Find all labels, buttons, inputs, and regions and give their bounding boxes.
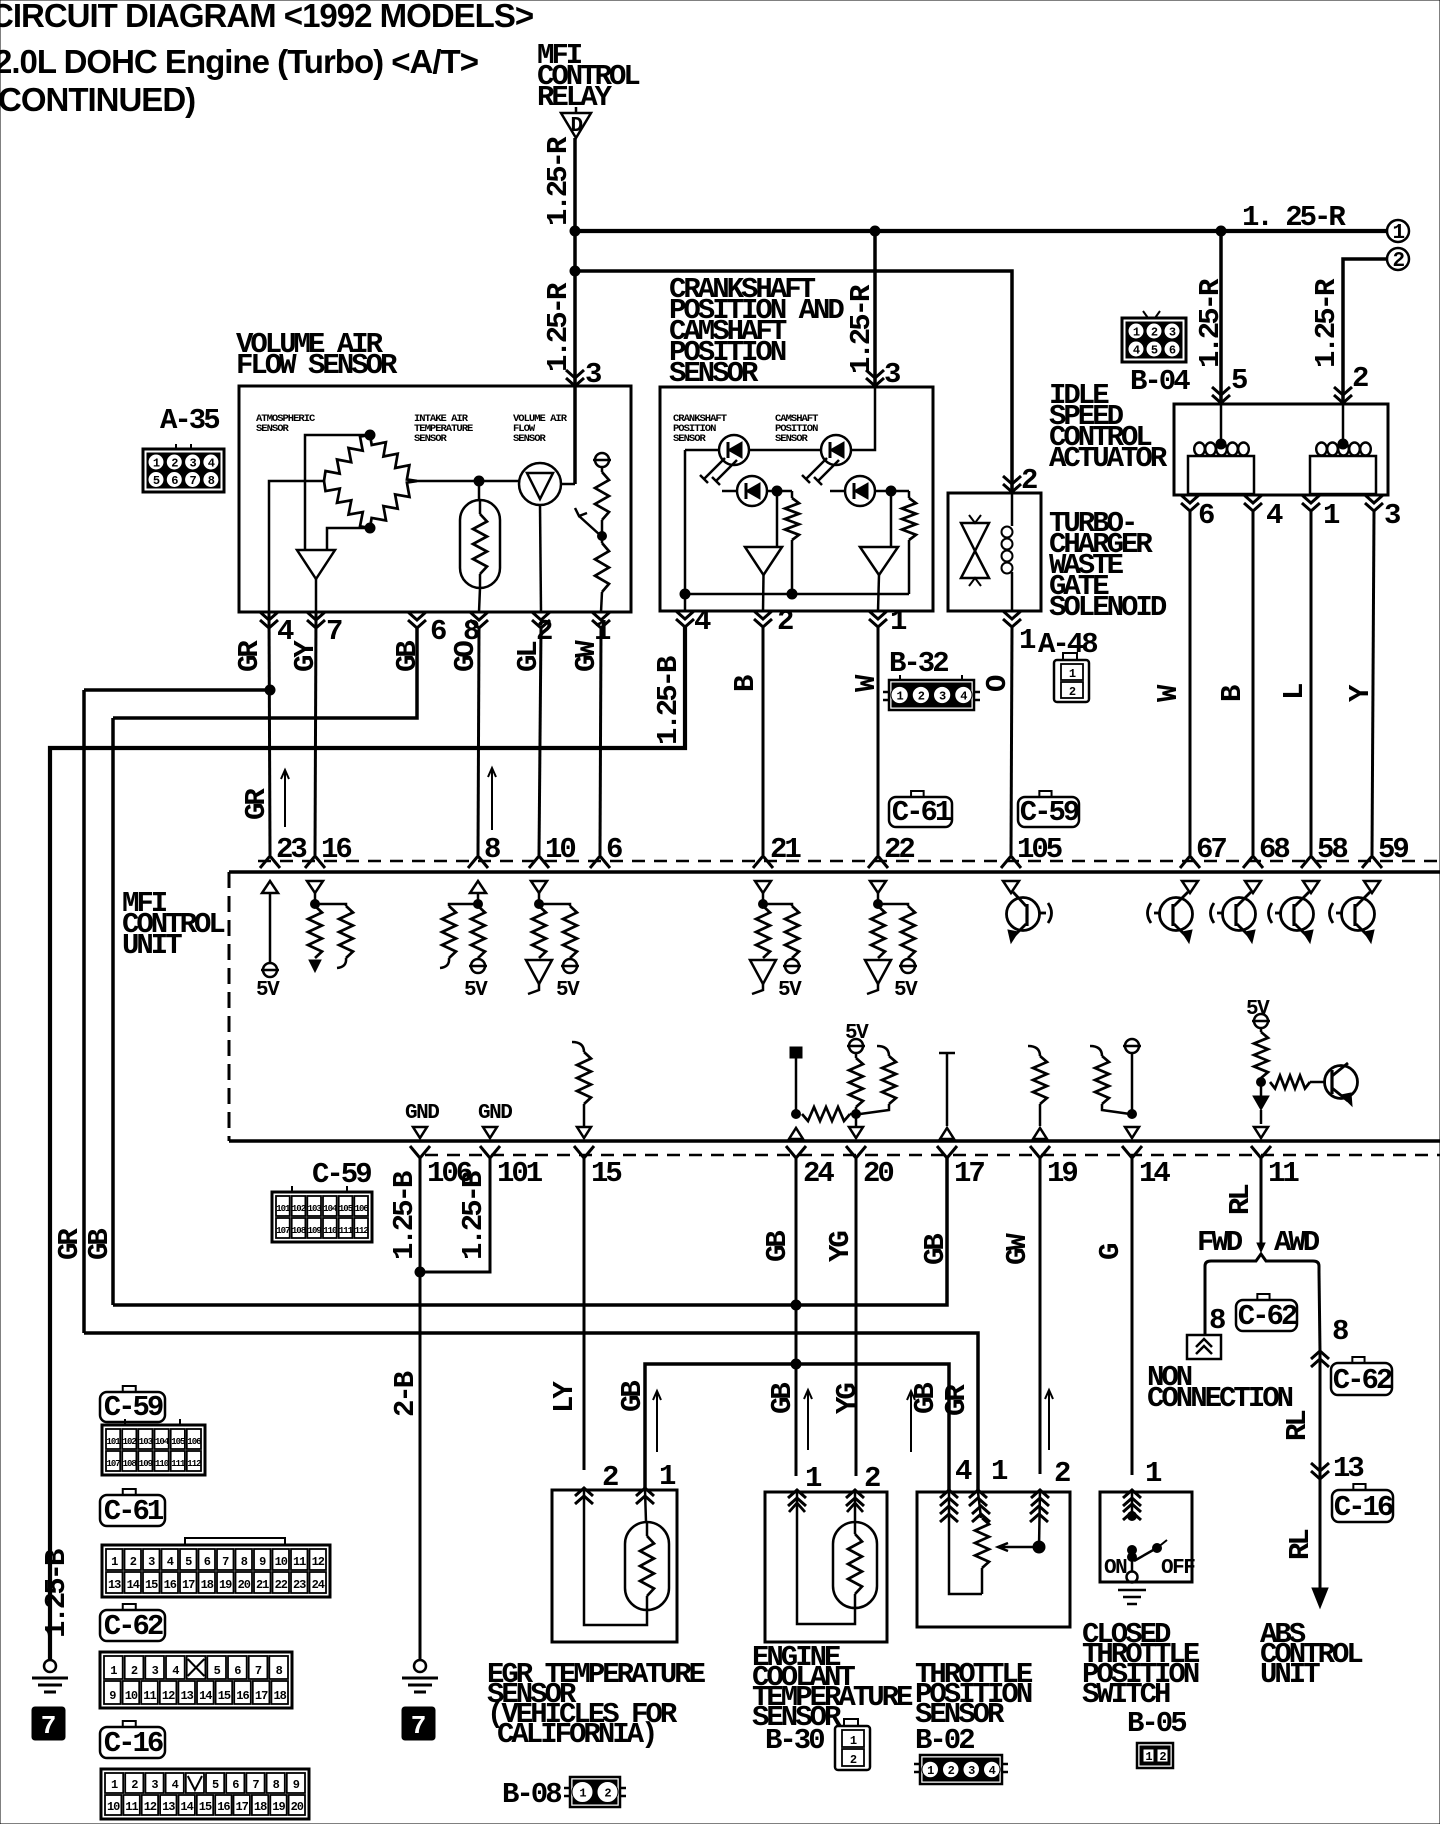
svg-text:7: 7 [252, 1778, 259, 1792]
svg-text:RL: RL [1281, 1411, 1314, 1441]
svg-text:4: 4 [208, 457, 215, 471]
svg-text:9: 9 [259, 1555, 266, 1569]
svg-text:GB: GB [766, 1383, 799, 1414]
MFI pin 68 arrow [1243, 856, 1263, 868]
svg-text:1: 1 [111, 1555, 118, 1569]
EGR pin 1 arrow [636, 1488, 654, 1504]
svg-text:15: 15 [199, 1800, 212, 1814]
svg-text:5: 5 [1231, 364, 1247, 397]
wastegate valve symbol [961, 515, 989, 586]
MFI pin 23 arrow [260, 856, 280, 868]
wire flow meter to pin 2 [540, 505, 541, 612]
svg-text:OFF: OFF [1161, 1557, 1195, 1580]
MFI control relay symbol D [561, 107, 591, 138]
junction bus resistor [787, 589, 797, 599]
junction GR branch [265, 685, 275, 695]
EGR sensor label [487, 1658, 706, 1751]
svg-text:17: 17 [255, 1689, 268, 1703]
svg-text:1: 1 [897, 690, 904, 704]
wire photo crank right [768, 490, 792, 493]
svg-text:110: 110 [155, 1459, 169, 1469]
junction 106-101 merge [415, 1267, 425, 1277]
svg-text:1.25-R: 1.25-R [845, 284, 878, 374]
svg-text:5V: 5V [894, 979, 918, 1002]
svg-text:SENSOR: SENSOR [775, 433, 809, 445]
svg-text:22: 22 [275, 1578, 288, 1592]
svg-text:GND: GND [405, 1102, 439, 1125]
EGR temperature sensor box [552, 1490, 677, 1642]
connector A-35 [143, 444, 224, 492]
MFI pin 22 arrow [868, 856, 888, 868]
svg-text:16: 16 [217, 1800, 230, 1814]
svg-text:16: 16 [236, 1689, 249, 1703]
bridge bottom junction [365, 523, 375, 533]
engine coolant temperature sensor box [765, 1492, 887, 1642]
svg-text:5: 5 [212, 1778, 219, 1792]
svg-text:YG: YG [831, 1384, 864, 1414]
wire G pin 14 to throttle switch [1131, 1158, 1134, 1475]
svg-text:106: 106 [187, 1437, 201, 1447]
turbocharger wastegate solenoid box [948, 493, 1041, 611]
svg-text:1.25-B: 1.25-B [652, 656, 685, 745]
svg-text:24: 24 [312, 1578, 325, 1592]
svg-text:17: 17 [182, 1578, 195, 1592]
MFI pin 10 arrow [529, 856, 549, 868]
light rays crankshaft [700, 458, 737, 485]
bridge resistor bottom-right [370, 481, 417, 528]
svg-text:C-61: C-61 [104, 1495, 164, 1528]
svg-text:2: 2 [604, 1787, 611, 1801]
svg-text:4: 4 [989, 1764, 996, 1778]
svg-text:C-16: C-16 [1334, 1491, 1393, 1524]
svg-text:GR: GR [53, 1228, 86, 1260]
svg-text:7: 7 [41, 1711, 57, 1741]
wire GW pin 19 to TPS [1039, 1158, 1042, 1474]
svg-text:2.0L DOHC Engine (Turbo) <A/T>: 2.0L DOHC Engine (Turbo) <A/T> [0, 43, 478, 80]
ECT thermistor [833, 1492, 877, 1608]
MFI pin 19 bottom arrow [1030, 1146, 1050, 1158]
svg-text:1: 1 [1145, 1750, 1152, 1764]
svg-text:5V: 5V [778, 979, 802, 1002]
EGR thermistor [625, 1490, 669, 1610]
throttle switch pin 1 arrow [1123, 1490, 1141, 1506]
ISC coil 1 [1188, 404, 1254, 494]
svg-text:CONNECTION: CONNECTION [1147, 1382, 1293, 1415]
connector C-16 label box bottom [123, 1721, 136, 1727]
connector B-32 [883, 675, 980, 710]
closed throttle position switch label [1082, 1618, 1200, 1711]
wire amp cam to pin 1 [878, 575, 879, 611]
ISC pin 4 arrow [1244, 495, 1262, 511]
svg-text:8: 8 [484, 833, 500, 866]
wire GB pin 24 down [795, 1158, 798, 1476]
junction photo crank [772, 486, 782, 496]
svg-text:21: 21 [256, 1578, 269, 1592]
wire 1.25-B crank pin4 to left bus [50, 627, 685, 1660]
wire FWD branch [1204, 1272, 1207, 1335]
svg-text:C-61: C-61 [892, 796, 952, 829]
svg-text:9: 9 [293, 1778, 300, 1792]
svg-text:11: 11 [143, 1689, 156, 1703]
amp crankshaft [745, 547, 782, 575]
connector C-61 label box [911, 791, 924, 797]
svg-text:20: 20 [238, 1578, 251, 1592]
LED crankshaft [719, 435, 749, 465]
junction ISC feed [1216, 226, 1226, 236]
connector C-59 pin diagram [102, 1419, 205, 1475]
svg-text:108: 108 [292, 1226, 306, 1236]
svg-text:102: 102 [123, 1437, 137, 1447]
svg-text:2: 2 [1069, 685, 1076, 699]
svg-text:6: 6 [430, 615, 446, 648]
left rail crank box [684, 450, 687, 594]
svg-text:LY: LY [548, 1381, 581, 1413]
crankshaft position sensor inner label [673, 413, 727, 445]
wire GL pin2 to MFI 10 [539, 628, 541, 855]
svg-text:C-62: C-62 [1333, 1364, 1392, 1397]
svg-text:16: 16 [321, 833, 351, 866]
pin 3 arrow VAF sensor [566, 370, 584, 386]
svg-text:SENSOR: SENSOR [414, 433, 448, 445]
MFI pin 105 arrow [1001, 856, 1021, 868]
wire 1.25-R top bus [575, 229, 1387, 233]
svg-text:2: 2 [171, 457, 178, 471]
engine coolant temperature sensor label [752, 1641, 913, 1734]
AWD pin 8 arrow [1311, 1351, 1329, 1367]
MFI pin 22 input circuit [865, 881, 918, 1002]
svg-text:6: 6 [1198, 499, 1214, 532]
svg-text:13: 13 [162, 1800, 175, 1814]
wire LY pin 15 to EGR [583, 1158, 586, 1470]
svg-text:18: 18 [273, 1689, 286, 1703]
svg-text:3: 3 [939, 690, 946, 704]
MFI pin 106 gnd triangle [413, 1127, 427, 1138]
svg-text:L: L [1278, 684, 1311, 700]
svg-text:AWD: AWD [1274, 1226, 1320, 1259]
wire flow meter to relay wire [561, 483, 575, 486]
crank pin 2 arrow [754, 611, 772, 627]
MFI pin 67 arrow [1180, 856, 1200, 868]
bridge resistor top-left [324, 435, 370, 481]
svg-text:(CONTINUED): (CONTINUED) [0, 81, 195, 118]
TPS pin 4 arrow [940, 1490, 958, 1506]
svg-text:1: 1 [850, 1734, 857, 1748]
svg-text:7: 7 [255, 1664, 262, 1678]
wastegate pin 1 arrow [1003, 611, 1021, 627]
svg-text:3: 3 [968, 1764, 975, 1778]
svg-text:3: 3 [189, 457, 196, 471]
MFI pin 19 circuit [1028, 1046, 1047, 1139]
wire photo crank to amp [776, 491, 779, 547]
wire bridge left to pin 4 [269, 481, 324, 612]
light rays camshaft [802, 458, 839, 485]
wire RL pin 11 [1260, 1158, 1263, 1246]
svg-text:C-59: C-59 [104, 1391, 163, 1424]
MFI pin 8 arrow [468, 856, 488, 868]
svg-text:9: 9 [109, 1689, 116, 1703]
junction crank feed [870, 226, 880, 236]
svg-text:1.25-R: 1.25-R [1194, 278, 1227, 368]
crankshaft camshaft sensor label [669, 273, 844, 390]
volume air flow sensor inner label [513, 413, 568, 445]
left bus GB vertical [111, 718, 115, 1305]
connector B-04 [1122, 311, 1186, 362]
svg-text:C-59: C-59 [1020, 796, 1079, 829]
svg-text:1.25-B: 1.25-B [457, 1171, 490, 1260]
wire bridge bottom to amp input [327, 528, 370, 550]
svg-text:4: 4 [172, 1778, 179, 1792]
svg-text:2: 2 [777, 605, 793, 638]
connector C-61 label box bottom [123, 1489, 136, 1495]
throttle switch contacts [1104, 1492, 1195, 1580]
svg-text:1.25-R: 1.25-R [1310, 278, 1343, 368]
svg-text:3: 3 [148, 1555, 155, 1569]
wire GB pin6 to left bus [113, 628, 417, 718]
svg-text:101: 101 [106, 1437, 121, 1447]
svg-text:4: 4 [172, 1664, 179, 1678]
pin 3 arrow crank sensor [866, 370, 884, 386]
MFI box top edge [229, 870, 1440, 874]
svg-text:3: 3 [152, 1664, 159, 1678]
crank box ground bus [685, 593, 909, 596]
bridge resistor bottom-left [324, 481, 370, 528]
svg-text:109: 109 [139, 1459, 153, 1469]
MFI pin 8 input circuit [440, 881, 488, 1002]
svg-text:3: 3 [1169, 326, 1176, 340]
ISC pin 3 arrow [1365, 495, 1383, 511]
ECT pin 2 arrow [846, 1490, 864, 1506]
svg-text:6: 6 [232, 1778, 239, 1792]
wire 1.25-R to crank sensor pin 3 [873, 231, 877, 387]
svg-text:16: 16 [164, 1578, 177, 1592]
svg-text:2: 2 [1352, 362, 1368, 395]
MFI box bottom edge [229, 1139, 1440, 1143]
svg-text:15: 15 [218, 1689, 231, 1703]
idle speed control actuator label [1049, 379, 1168, 475]
FWD AWD fork [1205, 1254, 1319, 1272]
wire L ISC1 to MFI 58 [1310, 511, 1313, 855]
svg-text:GB: GB [919, 1234, 952, 1265]
wire bridge top to amp input [305, 435, 370, 550]
MFI pin 106 bottom arrow [410, 1146, 430, 1158]
svg-text:59: 59 [1378, 833, 1408, 866]
svg-text:ACTUATOR: ACTUATOR [1049, 442, 1168, 475]
ground 2-B [402, 1660, 438, 1692]
throttle position sensor box [917, 1492, 1070, 1627]
wire GY pin7 to MFI 16 [315, 612, 316, 855]
MFI pin 24 circuit [789, 1047, 861, 1139]
wastegate coil [1002, 493, 1013, 611]
VAF pin 4 arrow [260, 612, 278, 628]
arrow GB TPS direction [907, 1391, 915, 1452]
turbocharger wastegate solenoid label [1049, 507, 1167, 624]
svg-text:107: 107 [106, 1459, 120, 1469]
svg-text:11: 11 [1268, 1157, 1299, 1190]
svg-text:103: 103 [139, 1437, 153, 1447]
arrow GB EGR direction [653, 1391, 661, 1452]
svg-text:B-32: B-32 [889, 647, 948, 680]
EGR pin 2 arrow [575, 1488, 593, 1504]
wire potentiometer to pin 1 [601, 592, 602, 612]
svg-text:FLOW SENSOR: FLOW SENSOR [236, 349, 398, 382]
svg-text:2: 2 [1392, 250, 1404, 273]
stub photo cam left [830, 490, 844, 493]
svg-text:67: 67 [1196, 833, 1226, 866]
svg-text:GO: GO [449, 641, 482, 672]
svg-text:2-B: 2-B [389, 1371, 422, 1417]
svg-text:UNIT: UNIT [1260, 1658, 1320, 1691]
svg-text:10: 10 [545, 833, 575, 866]
MFI pin 23 input circuit [256, 881, 280, 1002]
svg-text:2: 2 [1054, 1457, 1070, 1490]
flow meter symbol [519, 463, 561, 505]
svg-text:5: 5 [185, 1555, 192, 1569]
svg-text:5V: 5V [845, 1022, 869, 1045]
arrow GO direction [488, 768, 496, 830]
phototransistor camshaft [845, 476, 875, 506]
junction relay bus [570, 226, 580, 236]
svg-text:17: 17 [954, 1157, 984, 1190]
svg-text:GL: GL [512, 642, 545, 672]
svg-text:15: 15 [591, 1157, 621, 1190]
MFI pin 21 input circuit [750, 881, 802, 1002]
svg-text:109: 109 [308, 1226, 322, 1236]
potentiometer wiper arrow [575, 508, 600, 535]
svg-text:C-62: C-62 [1238, 1300, 1297, 1333]
VAF pin 8 arrow [470, 612, 488, 628]
svg-text:101: 101 [276, 1204, 291, 1214]
svg-text:14: 14 [180, 1800, 193, 1814]
potentiometer resistor lower [595, 536, 609, 592]
potentiometer resistor upper [595, 467, 609, 533]
svg-text:12: 12 [144, 1800, 157, 1814]
svg-text:11: 11 [125, 1800, 138, 1814]
svg-text:19: 19 [219, 1578, 232, 1592]
svg-text:C-62: C-62 [104, 1610, 163, 1643]
MFI pin 11 circuit [1246, 998, 1358, 1138]
svg-text:105: 105 [171, 1437, 185, 1447]
svg-text:1: 1 [1133, 326, 1140, 340]
wire GB pin 17 down [113, 1158, 947, 1305]
svg-text:GR: GR [233, 640, 266, 672]
svg-text:B-05: B-05 [1127, 1707, 1186, 1740]
ISC coil 2 [1310, 404, 1376, 494]
wire amp output to pin 7 [315, 579, 318, 612]
svg-text:SENSOR: SENSOR [673, 433, 707, 445]
wire 1.25-R from circle 2 to ISC pin 2 [1343, 259, 1387, 404]
svg-text:6: 6 [234, 1664, 241, 1678]
svg-text:20: 20 [863, 1157, 893, 1190]
svg-text:6: 6 [1169, 344, 1176, 358]
junction GB net pin24 [791, 1300, 801, 1310]
throttle position sensor label [915, 1658, 1033, 1731]
svg-text:5: 5 [153, 474, 160, 488]
svg-text:6: 6 [204, 1555, 211, 1569]
svg-text:GR: GR [940, 1384, 973, 1416]
wastegate pin 2 arrow [1003, 476, 1021, 492]
svg-text:GB: GB [83, 1229, 116, 1260]
non connection label [1147, 1361, 1293, 1415]
op-amp VAF [297, 550, 335, 579]
svg-text:103: 103 [308, 1204, 322, 1214]
wire AWD branch lower [1319, 1479, 1322, 1590]
connector C-61 pin diagram [102, 1538, 330, 1597]
svg-text:1.25-B: 1.25-B [40, 1549, 73, 1638]
svg-text:4: 4 [167, 1555, 174, 1569]
svg-text:6: 6 [606, 833, 622, 866]
svg-text:2: 2 [948, 1764, 955, 1778]
connector C-62 pin diagram [100, 1652, 292, 1708]
svg-text:B-04: B-04 [1130, 365, 1190, 398]
wire 1.25-B pin 106 to ground [419, 1158, 422, 1660]
svg-text:4: 4 [960, 690, 967, 704]
svg-text:ON: ON [1104, 1557, 1127, 1580]
bridge resistor top-right [370, 435, 417, 481]
svg-text:3: 3 [1384, 499, 1400, 532]
MFI pin 14 circuit [1090, 1039, 1141, 1138]
MFI pin 17 bottom arrow [937, 1146, 957, 1158]
wire LED cam to LED crank [749, 449, 821, 452]
closed throttle position switch box [1100, 1492, 1192, 1582]
svg-text:RL: RL [1284, 1530, 1317, 1560]
camshaft position sensor inner label [775, 413, 818, 445]
svg-text:5V: 5V [256, 979, 280, 1002]
MFI pin 16 input circuit [307, 881, 353, 972]
MFI pin 101 gnd triangle [483, 1127, 497, 1138]
EGR internal wiring [584, 1490, 647, 1625]
MFI pin 59 arrow [1362, 856, 1382, 868]
FWD termination box [1187, 1335, 1221, 1359]
svg-text:105: 105 [339, 1204, 353, 1214]
connector A-48 [1054, 653, 1089, 702]
amp camshaft [860, 547, 898, 575]
svg-text:A-35: A-35 [160, 404, 219, 437]
junction second feed [570, 266, 580, 276]
connector C-62 label FWD [1257, 1294, 1269, 1300]
svg-text:14: 14 [199, 1689, 212, 1703]
junction GB lower [791, 1359, 801, 1369]
wire photo cam to amp [890, 491, 893, 547]
ground plate 7 right [402, 1707, 435, 1741]
svg-text:5: 5 [214, 1664, 221, 1678]
svg-text:4: 4 [1133, 344, 1140, 358]
wire second feed line to wastegate [575, 271, 1012, 493]
svg-text:B-02: B-02 [915, 1724, 974, 1757]
svg-text:11: 11 [293, 1555, 306, 1569]
connector C-16 pin diagram [101, 1769, 309, 1819]
crank pin 1 arrow [869, 611, 887, 627]
MFI control relay label [537, 39, 639, 114]
svg-text:2: 2 [536, 615, 552, 648]
wire to air temp thermistor [478, 481, 481, 500]
arrow GB ECT direction [804, 1390, 812, 1450]
wire Y ISC3 to MFI 59 [1372, 511, 1374, 855]
MFI pin 68 driver transistor [1211, 881, 1262, 943]
wire GB lower run EGR to TPS pin 4 [645, 1364, 949, 1492]
TPS pin 1 arrow [969, 1490, 987, 1506]
volume air flow sensor label [236, 328, 398, 382]
pin 2 arrow ISC [1334, 387, 1352, 403]
svg-text:1. 25-R: 1. 25-R [1242, 201, 1346, 234]
svg-text:68: 68 [1259, 833, 1289, 866]
terminal circle 1 [1387, 220, 1409, 242]
MFI pin 59 driver transistor [1330, 881, 1381, 943]
resistor cam [902, 491, 916, 594]
svg-text:GR: GR [240, 788, 273, 820]
left bus GR vertical [82, 690, 86, 1333]
svg-text:15: 15 [145, 1578, 158, 1592]
connector B-30 [835, 1719, 870, 1770]
